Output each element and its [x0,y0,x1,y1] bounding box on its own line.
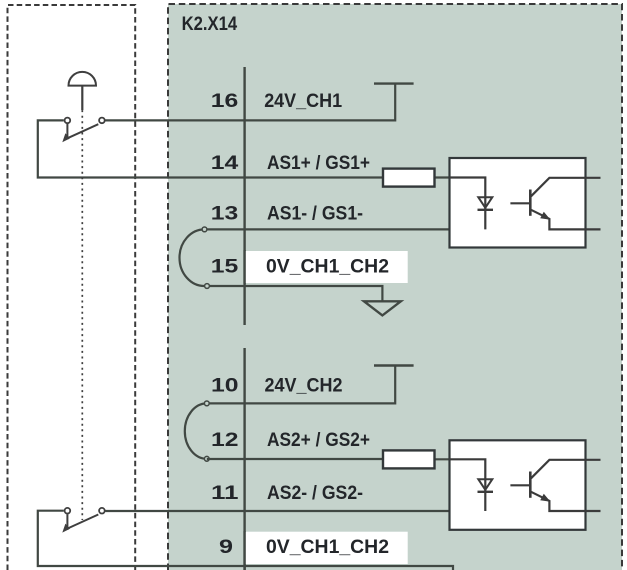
svg-text:13: 13 [211,203,239,225]
connector block K2.X14 shaded region [168,4,622,570]
switch S1 right terminal [99,118,105,124]
svg-text:24V_CH2: 24V_CH2 [265,375,343,397]
U2 LED cathode bar [478,491,494,493]
resistor R1 [383,169,435,187]
U2 phototransistor collector [531,460,601,479]
optocoupler U1 box [450,158,586,248]
terminal bus line (upper, pins 16/14/13/15) [243,67,245,325]
U1 LED lead wire [450,178,486,230]
24V_CH2 supply rail T symbol [374,364,414,366]
mushroom stem [81,86,83,111]
svg-text:16: 16 [211,90,239,112]
mechanical link dotted line [81,110,83,520]
wire resistor R1 to optocoupler [435,176,486,178]
optocoupler U2 box [450,440,586,530]
lower bus line over label box [243,531,245,570]
svg-text:9: 9 [219,536,233,558]
dashed border of emergency-stop device [8,5,136,570]
ground symbol (upper) [364,301,401,315]
svg-text:10: 10 [211,375,239,397]
white label box 0V_CH1_CH2 (lower) [245,532,408,564]
U1 LED cathode bar [478,209,494,211]
white label box 0V_CH1_CH2 (upper) [245,251,408,283]
svg-text:24V_CH1: 24V_CH1 [264,90,342,112]
U2 LED lead wire [450,459,486,511]
U1 phototransistor collector [531,178,601,197]
resistor R2 [383,450,435,468]
switch S1 lever tip [62,133,70,142]
bridge arc pins 10-12 [185,403,207,458]
U1 phototransistor base bar [529,190,532,216]
switch S2 lever tip [62,524,70,533]
svg-text:0V_CH1_CH2: 0V_CH1_CH2 [266,536,389,558]
U1 phototransistor emitter [531,210,601,230]
svg-text:AS2+ / GS2+: AS2+ / GS2+ [267,429,370,451]
switch S1 left terminal [65,118,71,124]
switch S2 right terminal [99,508,105,514]
svg-text:11: 11 [211,482,239,504]
svg-text:AS1- / GS1-: AS1- / GS1- [267,203,363,225]
dashed border of K2.X14 block [168,4,622,570]
wire switch2 to pin 11 and optocoupler U2 [105,510,485,512]
U2 phototransistor base bar [529,472,532,498]
switch S2 terminal stub [66,514,68,530]
wire switch2 return to pin 9 / ground [38,511,453,570]
node circle pin10 [204,401,209,406]
svg-text:K2.X14: K2.X14 [182,13,238,35]
terminal bus line (lower, pins 10/12/11/9) [243,348,245,570]
U1 phototransistor base lead [510,202,530,204]
wire pin 13 to optocoupler diode return [205,228,486,230]
wire pin16 to 24V supply [105,84,395,121]
U2 emitter arrowhead [540,494,550,502]
emergency stop mushroom head [69,72,97,86]
switch S1 lever [64,124,98,140]
U2 phototransistor emitter [531,492,601,511]
U2 phototransistor base lead [510,484,530,486]
svg-text:0V_CH1_CH2: 0V_CH1_CH2 [266,256,389,278]
switch S2 lever [64,515,98,531]
wire pin 12 to resistor R2 [207,458,383,460]
node circle pin12 [204,456,209,461]
U1 LED diode triangle [478,197,492,208]
svg-text:14: 14 [211,152,239,174]
svg-text:AS1+ / GS1+: AS1+ / GS1+ [267,152,370,174]
bridge arc pins 13-15 [180,229,205,286]
svg-text:12: 12 [211,429,239,451]
node circle pin13 [202,227,207,232]
wire pin 15 to ground [207,286,382,301]
node circle pin15 [205,284,210,289]
switch S1 terminal stub [66,124,68,140]
wire pin10 to 24V supply [207,366,395,404]
U1 emitter arrowhead [540,212,550,220]
24V_CH1 supply rail T symbol [374,82,414,84]
wire resistor R2 to optocoupler U2 [435,458,486,460]
svg-text:15: 15 [211,256,239,278]
upper bus line over label box [243,250,245,284]
U2 LED diode triangle [478,479,492,490]
switch S2 left terminal [65,508,71,514]
svg-text:AS2- / GS2-: AS2- / GS2- [267,482,363,504]
wire switch1 to pin 14 and resistor [38,120,383,177]
